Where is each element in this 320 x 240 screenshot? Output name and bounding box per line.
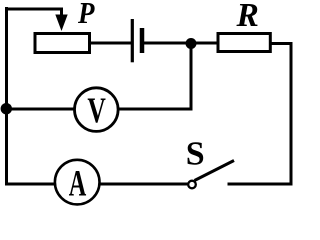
- junction node (top, battery/R/voltmeter): [186, 38, 197, 49]
- wire right vertical: [290, 42, 293, 186]
- wire bottom left (left edge to ammeter): [5, 183, 56, 186]
- wire battery to resistor R: [144, 42, 218, 45]
- junction node (left, voltmeter tap): [1, 103, 12, 114]
- wire ammeter to switch: [99, 183, 188, 186]
- potentiometer P body: [35, 34, 90, 53]
- wire bottom right (switch to right edge): [228, 183, 293, 186]
- svg-text:V: V: [87, 90, 106, 130]
- battery cell short plate (-): [140, 28, 145, 53]
- voltmeter V circle: [75, 88, 119, 132]
- wire resistor to right edge: [272, 42, 293, 45]
- potentiometer P wiper arrow: [55, 9, 67, 31]
- wire potentiometer to battery: [90, 42, 131, 45]
- wire top horizontal: [5, 8, 63, 11]
- switch S pivot circle: [188, 181, 196, 189]
- switch S lever: [195, 161, 235, 181]
- svg-text:R: R: [236, 0, 259, 34]
- voltmeter label V: [87, 90, 106, 130]
- svg-text:P: P: [77, 0, 95, 31]
- battery cell long plate (+): [131, 19, 134, 62]
- ammeter label A: [69, 162, 87, 203]
- label P: [77, 0, 95, 31]
- wire left node to voltmeter: [7, 108, 76, 111]
- wire voltmeter to right vertical branch: [118, 108, 193, 111]
- svg-text:A: A: [69, 162, 87, 203]
- wire left vertical (top-left to bottom-left): [5, 7, 8, 186]
- resistor R body: [218, 34, 270, 52]
- wire vertical branch to top junction: [190, 44, 193, 111]
- ammeter A circle: [55, 160, 100, 205]
- svg-text:S: S: [186, 135, 205, 172]
